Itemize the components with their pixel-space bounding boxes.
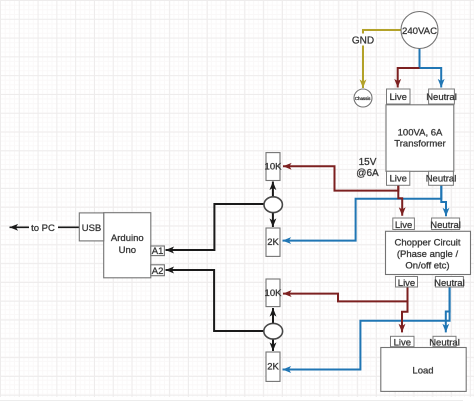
svg-text:Neutral: Neutral — [430, 220, 461, 231]
svg-text:Neutral: Neutral — [426, 174, 457, 185]
svg-text:Live: Live — [398, 278, 415, 289]
svg-text:Live: Live — [395, 220, 412, 231]
svg-text:Uno: Uno — [119, 245, 136, 256]
svg-text:Live: Live — [389, 92, 406, 103]
svg-text:USB: USB — [82, 223, 102, 234]
svg-text:GND: GND — [352, 36, 374, 47]
svg-text:100VA, 6A: 100VA, 6A — [398, 128, 443, 139]
svg-text:Live: Live — [389, 174, 406, 185]
svg-text:Arduino: Arduino — [111, 233, 144, 244]
svg-text:Load: Load — [412, 366, 433, 377]
svg-text:2K: 2K — [267, 362, 279, 373]
svg-text:10K: 10K — [265, 162, 283, 173]
svg-text:10K: 10K — [265, 288, 283, 299]
svg-text:On/off etc): On/off etc) — [405, 261, 449, 272]
svg-text:Neutral: Neutral — [429, 338, 460, 349]
svg-text:2K: 2K — [267, 237, 279, 248]
svg-text:15V: 15V — [359, 157, 377, 168]
svg-text:A1: A1 — [152, 246, 164, 257]
svg-text:Chassis: Chassis — [355, 96, 371, 101]
svg-text:Neutral: Neutral — [426, 92, 457, 103]
svg-text:Transformer: Transformer — [394, 139, 445, 150]
svg-text:240VAC: 240VAC — [402, 26, 437, 37]
svg-text:(Phase angle /: (Phase angle / — [397, 249, 459, 260]
svg-text:Chopper Circuit: Chopper Circuit — [395, 238, 461, 249]
svg-text:@6A: @6A — [356, 168, 379, 179]
svg-text:A2: A2 — [152, 266, 164, 277]
svg-text:Live: Live — [394, 338, 411, 349]
svg-text:to PC: to PC — [31, 223, 55, 234]
svg-text:Neutral: Neutral — [434, 278, 465, 289]
